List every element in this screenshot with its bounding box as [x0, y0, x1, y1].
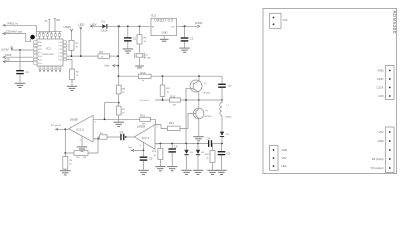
- svg-text:P1.4: P1.4: [59, 56, 63, 58]
- svg-text:GND: GND: [38, 45, 43, 47]
- svg-text:P0.5: P0.5: [38, 59, 42, 61]
- svg-text:P1.1: P1.1: [59, 45, 63, 47]
- svg-text:C9: C9: [227, 151, 231, 155]
- svg-text:P0.4: P0.4: [38, 63, 42, 65]
- svg-text:C6: C6: [174, 145, 178, 149]
- svg-text:U33V: U33V: [377, 77, 384, 81]
- svg-text:IC1 pin 9: IC1 pin 9: [140, 100, 150, 102]
- svg-text:C2: C2: [133, 37, 137, 41]
- svg-text:U5V: U5V: [282, 156, 287, 160]
- svg-text:SS14: SS14: [101, 28, 108, 32]
- svg-text:13 12 11 10 9: 13 12 11 10 9: [40, 32, 51, 34]
- svg-text:125 kHz out: 125 kHz out: [6, 30, 23, 34]
- svg-text:R10: R10: [141, 71, 146, 75]
- svg-text:U33V: U33V: [64, 25, 73, 29]
- svg-text:IC2.1: IC2.1: [142, 136, 150, 140]
- svg-text:P1.5: P1.5: [59, 59, 63, 61]
- svg-text:BC550: BC550: [205, 116, 212, 118]
- svg-text:C2D: C2D: [5, 58, 10, 62]
- svg-text:R14: R14: [169, 121, 174, 125]
- svg-text:IC2.2: IC2.2: [76, 128, 84, 132]
- svg-text:IC1: IC1: [46, 47, 51, 51]
- svg-text:32.768: 32.768: [144, 58, 151, 60]
- svg-text:LED: LED: [78, 22, 85, 26]
- svg-text:GND: GND: [378, 139, 384, 143]
- svg-text:BC550: BC550: [204, 93, 211, 95]
- svg-text:R11: R11: [171, 94, 176, 98]
- svg-text:C3: C3: [190, 37, 194, 41]
- svg-text:RX (input): RX (input): [372, 157, 384, 161]
- svg-text:P1.0: P1.0: [59, 42, 63, 44]
- svg-text:C5: C5: [149, 156, 153, 160]
- svg-text:TX (output): TX (output): [371, 166, 384, 170]
- svg-text:GND: GND: [162, 31, 168, 35]
- svg-text:IC3: IC3: [151, 13, 156, 17]
- svg-text:D1: D1: [102, 19, 106, 23]
- svg-text:R3: R3: [100, 50, 104, 54]
- svg-text:100µH: 100µH: [225, 116, 232, 118]
- svg-text:COL: COL: [283, 18, 289, 22]
- svg-text:U33V: U33V: [1, 47, 10, 51]
- svg-text:GND: GND: [378, 69, 384, 73]
- svg-text:U5V: U5V: [378, 130, 383, 134]
- svg-text:LM1117-3.3: LM1117-3.3: [154, 19, 173, 23]
- svg-text:RF/2 in: RF/2 in: [8, 21, 18, 25]
- svg-text:C8: C8: [207, 137, 211, 141]
- svg-text:GND: GND: [282, 148, 288, 152]
- svg-text:R9: R9: [57, 18, 61, 22]
- svg-text:LED: LED: [282, 164, 287, 168]
- svg-text:C2CK: C2CK: [377, 86, 384, 90]
- svg-text:P1.3: P1.3: [59, 52, 63, 54]
- svg-text:C4: C4: [120, 130, 124, 134]
- svg-text:U33V: U33V: [195, 21, 204, 25]
- svg-text:Uan: Uan: [105, 64, 110, 68]
- svg-text:RDM6300: RDM6300: [392, 11, 397, 34]
- svg-text:1M: 1M: [142, 124, 145, 126]
- svg-text:C2CK: C2CK: [5, 53, 12, 57]
- svg-text:1M: 1M: [173, 105, 176, 107]
- svg-text:P1.2: P1.2: [59, 49, 63, 51]
- svg-text:C8051F330: C8051F330: [42, 54, 54, 56]
- svg-text:C2D: C2D: [378, 94, 383, 98]
- svg-text:LM358: LM358: [70, 117, 78, 121]
- svg-text:P0.7: P0.7: [38, 52, 42, 54]
- svg-text:P0.6: P0.6: [38, 56, 42, 58]
- svg-text:1M: 1M: [83, 157, 86, 159]
- svg-text:C1: C1: [26, 70, 30, 74]
- svg-text:IC1 pin 20: IC1 pin 20: [51, 125, 62, 127]
- svg-text:C7: C7: [228, 84, 232, 88]
